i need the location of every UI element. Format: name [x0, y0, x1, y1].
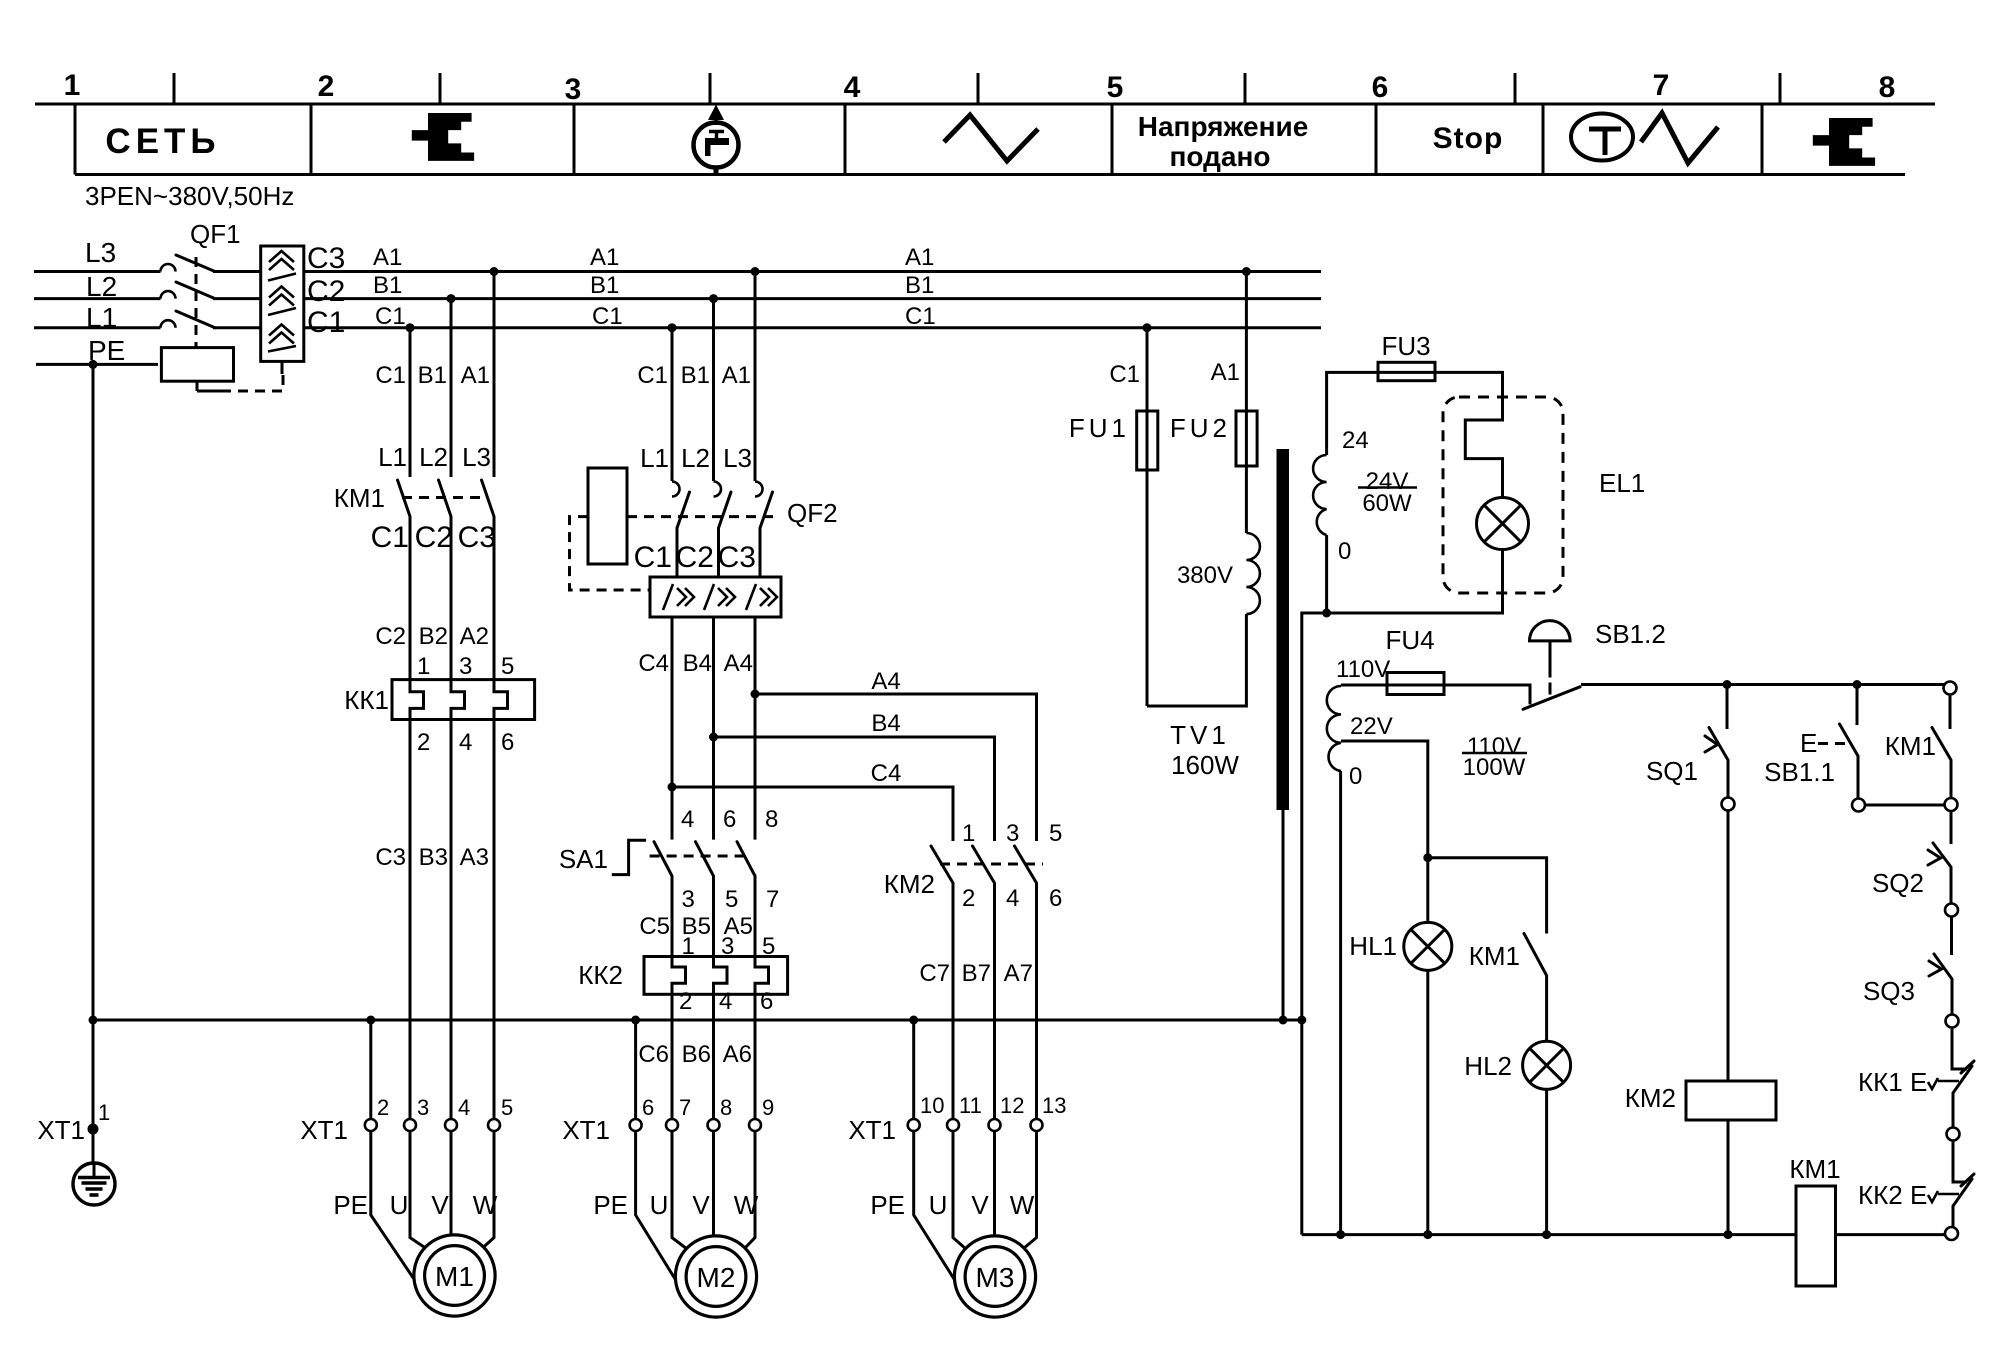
terminal XT1-10 [908, 1119, 920, 1131]
KK1 reset link [1938, 1080, 1959, 1083]
svg-text:4: 4 [681, 806, 694, 833]
wire PE down [92, 364, 95, 1020]
cell3 faucet stem [715, 132, 719, 139]
wire branch2 pole3 low [754, 994, 757, 1119]
wire U to motor1 [410, 1131, 426, 1248]
fuse FU3 [1378, 362, 1435, 380]
svg-text:L2: L2 [681, 443, 710, 473]
wire drop1 A [493, 272, 496, 478]
QF2 blade pole1 [677, 492, 690, 528]
motor M1 outer [414, 1235, 495, 1316]
svg-text:A1: A1 [1211, 359, 1240, 386]
cell7 ellipse [1571, 114, 1633, 161]
QF2 blade pole3 [760, 492, 773, 528]
terminal XT1-7 [666, 1119, 678, 1131]
KM1 main contact blade3 [482, 480, 495, 517]
svg-text:W: W [1010, 1190, 1035, 1220]
transformer TV1 core [1277, 449, 1290, 810]
svg-text:КК1: КК1 [344, 685, 389, 715]
SQ3 roller flag [1929, 961, 1942, 976]
svg-text:4: 4 [459, 729, 472, 756]
QF1 contact arc L3 [161, 264, 176, 272]
wire SB1.1 to terminal [1857, 756, 1860, 798]
svg-text:E: E [1800, 728, 1817, 758]
QF1 block bottom stub [281, 361, 284, 374]
svg-text:FU2: FU2 [1170, 413, 1231, 443]
wire SA1 pole1 top [671, 787, 674, 840]
svg-text:B1: B1 [905, 272, 934, 299]
svg-text:7: 7 [679, 1095, 691, 1120]
thermal relay KK2 box [644, 957, 788, 995]
ruler tick 7-8 [1779, 73, 1782, 104]
lamp HL1 [1404, 922, 1452, 970]
svg-text:L1: L1 [86, 302, 117, 333]
wire bottom rail [1302, 1233, 1796, 1236]
svg-text:A7: A7 [1004, 960, 1033, 987]
svg-text:B3: B3 [419, 844, 448, 871]
KM2 main contact blade2 [973, 846, 995, 883]
svg-text:КМ1: КМ1 [1789, 1154, 1840, 1184]
svg-text:C3: C3 [375, 844, 406, 871]
svg-text:M3: M3 [976, 1262, 1015, 1293]
node A1-drop2 [751, 267, 760, 276]
svg-text:6: 6 [642, 1095, 654, 1120]
svg-text:SQ3: SQ3 [1863, 976, 1915, 1006]
wire SA1 pole2 top [712, 737, 715, 840]
QF1 blade L1 [176, 311, 215, 328]
wire V to motor2 [712, 1131, 715, 1237]
terminal XT1-5 [488, 1119, 500, 1131]
svg-text:C1: C1 [1109, 361, 1140, 388]
wire drop2 A [754, 272, 757, 482]
band separator 3 [844, 104, 847, 175]
svg-text:C6: C6 [638, 1041, 669, 1068]
wire U to motor2 [672, 1131, 687, 1249]
SA1 actuator [612, 840, 646, 874]
lamp HL1 cross [1411, 929, 1445, 963]
QF1 blade L3 [176, 255, 215, 272]
svg-text:L2: L2 [419, 442, 448, 472]
terminal XT1-4 [445, 1119, 457, 1131]
cell7 T stem [1603, 129, 1608, 155]
wire branch3 pole3 low [1035, 883, 1038, 1119]
wire A4 horizontal [755, 694, 1037, 841]
svg-text:4: 4 [1006, 885, 1019, 912]
svg-text:L2: L2 [86, 271, 117, 302]
svg-text:8: 8 [1879, 71, 1896, 104]
KK1 heater pole2 [451, 680, 465, 720]
cell3 faucet handle [709, 130, 724, 134]
wire FU2 through [1245, 411, 1248, 466]
fuse FU2 [1236, 411, 1257, 466]
QF2 trip symbol pole3 [746, 584, 777, 610]
svg-text:A3: A3 [460, 844, 489, 871]
svg-text:L1: L1 [378, 442, 407, 472]
svg-text:3: 3 [417, 1095, 429, 1120]
terminal XT1-2 [365, 1119, 377, 1131]
wire branch2 pole1 low [671, 994, 674, 1119]
svg-text:2: 2 [377, 1095, 389, 1120]
svg-text:B4: B4 [683, 650, 712, 677]
wire W to motor1 [483, 1131, 494, 1248]
svg-text:XT1: XT1 [37, 1115, 85, 1145]
terminal KM1 aux bottom [1945, 798, 1958, 811]
QF1 overcurrent block [261, 246, 304, 361]
wire core ground [1282, 810, 1285, 1020]
svg-text:A1: A1 [373, 244, 402, 271]
svg-text:10: 10 [920, 1093, 944, 1118]
wire PE to motor1 [371, 1131, 415, 1280]
wire pole1 low [409, 720, 412, 1120]
svg-text:6: 6 [723, 806, 736, 833]
QF2 release coil box [588, 468, 627, 564]
svg-text:6: 6 [1372, 71, 1389, 104]
wire to KK1 contact [1952, 1028, 1967, 1070]
wire bottom rail right [1836, 1233, 1946, 1236]
svg-text:С3: С3 [458, 521, 496, 554]
wire L1 to block [213, 326, 261, 329]
svg-text:3PEN~380V,50Hz: 3PEN~380V,50Hz [85, 181, 294, 211]
svg-text:0: 0 [1338, 538, 1351, 565]
svg-text:КМ1: КМ1 [1885, 731, 1936, 761]
node common rail PE [1297, 1016, 1306, 1025]
node B4 junction [709, 733, 718, 742]
wire to KK2 contact [1953, 1141, 1967, 1183]
earth bar3 [86, 1187, 103, 1191]
earth bar4 [90, 1193, 99, 1197]
svg-text:B7: B7 [962, 960, 991, 987]
QF1 release coil box [161, 348, 233, 382]
wire 24V top to FU3 [1327, 372, 1378, 455]
wire KK2 to terminal [1952, 1206, 1955, 1227]
svg-text:3: 3 [565, 73, 582, 106]
svg-text:С1: С1 [634, 541, 672, 574]
wire L2 input [34, 297, 161, 300]
cell3 faucet body [705, 138, 729, 145]
band separator 5 [1375, 104, 1378, 175]
svg-text:B2: B2 [419, 623, 448, 650]
wire W to motor3 [1024, 1131, 1037, 1249]
svg-text:C2: C2 [375, 623, 406, 650]
svg-text:A6: A6 [723, 1041, 752, 1068]
svg-text:C5: C5 [639, 913, 670, 940]
svg-text:С2: С2 [676, 541, 714, 574]
wire KM2 coil to rail [1727, 1122, 1730, 1235]
lamp HL2 cross [1530, 1048, 1564, 1082]
node PE junction [89, 360, 98, 369]
svg-text:КК2: КК2 [578, 960, 623, 990]
wire SA1 pole1 low [671, 876, 674, 957]
QF1 release chevrons pole1 [269, 251, 294, 270]
cell3 bottom stub [714, 166, 719, 173]
wire SA1 pole3 top [754, 694, 757, 840]
terminal XT1-3 [404, 1119, 416, 1131]
svg-text:12: 12 [1000, 1093, 1024, 1118]
band separator 2 [573, 104, 576, 175]
ruler tick 1-2 [173, 73, 176, 104]
svg-text:380V: 380V [1177, 562, 1233, 589]
node rail 0tap [1336, 1230, 1345, 1239]
QF1 release slash pole2 [268, 308, 296, 315]
bus B1 [304, 297, 1321, 300]
wire HL1 top [1426, 858, 1429, 923]
svg-text:5: 5 [725, 886, 738, 913]
terminal top right [1944, 682, 1957, 695]
KM2 contact link dashed [940, 863, 1043, 866]
svg-text:СЕТЬ: СЕТЬ [105, 122, 220, 161]
svg-text:1: 1 [962, 820, 975, 847]
wire PE to motor3 [914, 1131, 955, 1281]
svg-text:С2: С2 [415, 521, 453, 554]
node C1-drop1 [406, 323, 415, 332]
SB1.2 stem dashed [1549, 683, 1552, 695]
node rail KM2 [1724, 1230, 1733, 1239]
wire FU4 through [1387, 684, 1444, 687]
cell7 zigzag [1641, 113, 1718, 163]
QF1 linkage bottom solid [197, 390, 221, 393]
KM1 aux blade [1932, 728, 1951, 761]
wire branch2 pole2 low [712, 994, 715, 1119]
KK1 reset check [1928, 1078, 1938, 1089]
KK2 heater pole2 [714, 957, 728, 995]
band separator 0 [74, 104, 77, 175]
wire A1 to FU2 [1245, 272, 1248, 412]
svg-text:C1: C1 [375, 303, 406, 330]
terminal XT1-11 [947, 1119, 959, 1131]
svg-text:SA1: SA1 [559, 844, 608, 874]
svg-text:U: U [390, 1190, 409, 1220]
wire primary bottom [1147, 614, 1246, 706]
svg-text:QF2: QF2 [787, 498, 838, 528]
KK2 contact tick [1961, 1174, 1974, 1186]
svg-text:2: 2 [679, 988, 692, 1015]
wire FU3 to EL1 [1435, 372, 1503, 497]
svg-text:PE: PE [593, 1190, 628, 1220]
motor M3 outer [954, 1236, 1035, 1317]
earth bar2 [82, 1181, 107, 1185]
wire FU1 to bottom [1146, 470, 1149, 706]
wire L2 to block [213, 297, 261, 300]
svg-text:U: U [650, 1190, 669, 1220]
svg-text:HL1: HL1 [1349, 931, 1397, 961]
wire PE rail [93, 1019, 1302, 1022]
SB1.2 stem [1549, 642, 1552, 678]
svg-text:С1: С1 [307, 306, 345, 339]
node PE drop3 [909, 1016, 918, 1025]
svg-text:КК2 Е: КК2 Е [1858, 1180, 1927, 1210]
svg-text:5: 5 [1107, 71, 1124, 104]
cell4 zigzag [944, 115, 1038, 161]
node PE drop1 [366, 1016, 375, 1025]
svg-text:V: V [971, 1190, 989, 1220]
ruler tick 6-7 [1514, 73, 1517, 104]
svg-text:100W: 100W [1463, 754, 1526, 781]
wire branch3 pole2 low [993, 883, 996, 1119]
svg-text:5: 5 [501, 1095, 513, 1120]
svg-text:C1: C1 [905, 303, 936, 330]
wire to SQ2 [1950, 811, 1953, 844]
QF2 trip link dashed [627, 515, 775, 518]
lamp EL1 [1477, 498, 1529, 550]
wire 0 tap down [1339, 771, 1342, 1235]
earth stem [93, 1163, 96, 1177]
node C1-drop2 [668, 323, 677, 332]
KM1 main contact blade2 [439, 480, 452, 517]
wire C1 to FU1 [1146, 328, 1149, 411]
node rail HL1 [1423, 1230, 1432, 1239]
wire drop2 B [712, 299, 715, 481]
QF1 linkage bottom dashed [221, 374, 283, 391]
svg-text:L3: L3 [85, 237, 116, 268]
wire PE drop2 [634, 1020, 637, 1119]
svg-text:EL1: EL1 [1599, 468, 1645, 498]
KM2 main contact blade3 [1015, 846, 1037, 883]
terminal bottom right [1945, 1227, 1958, 1240]
KM2 main contact blade1 [931, 846, 953, 883]
svg-text:C1: C1 [375, 362, 406, 389]
thermal relay KK1 box [392, 680, 535, 720]
wire U to motor3 [953, 1131, 966, 1249]
TV1 secondary 110V winding [1327, 686, 1341, 771]
svg-text:КМ1: КМ1 [334, 483, 385, 513]
node 0-24V junction [1322, 609, 1331, 618]
svg-text:C1: C1 [592, 303, 623, 330]
node XT1-1 [88, 1124, 99, 1135]
SA1 blade pole1 [654, 842, 672, 876]
band separator 7 [1761, 104, 1764, 175]
node PE rail left [89, 1016, 98, 1025]
terminal SQ2 bottom [1945, 904, 1958, 917]
svg-text:A1: A1 [722, 362, 751, 389]
node rail SB1.1 [1853, 680, 1862, 689]
svg-text:60W: 60W [1362, 490, 1412, 517]
KK2 reset check [1928, 1191, 1938, 1202]
svg-text:С2: С2 [307, 275, 345, 308]
svg-text:B1: B1 [681, 362, 710, 389]
SQ2 roller flag [1928, 850, 1941, 865]
svg-text:PE: PE [333, 1190, 368, 1220]
svg-text:XT1: XT1 [848, 1115, 896, 1145]
svg-text:U: U [929, 1190, 948, 1220]
svg-text:8: 8 [720, 1095, 732, 1120]
node A1-drop1 [490, 267, 499, 276]
terminal XT1-12 [989, 1119, 1001, 1131]
svg-text:11: 11 [959, 1093, 982, 1118]
KM1 main contact blade1 [398, 480, 411, 517]
QF1 release chevrons pole3 [269, 325, 294, 344]
QF1 release chevrons pole2 [269, 287, 294, 306]
ruler tick 2-3 [439, 73, 442, 104]
svg-text:3: 3 [682, 886, 695, 913]
QF1 trip linkage dashed [195, 257, 198, 348]
wire L3 to block [213, 270, 261, 273]
KK2 heater pole3 [755, 957, 769, 995]
node core ground [1279, 1016, 1288, 1025]
wire SB1.1 KM1 link [1865, 804, 1944, 807]
node A1-dropFU2 [1242, 267, 1251, 276]
KK2 contact blade [1953, 1179, 1972, 1206]
svg-text:0: 0 [1349, 763, 1362, 790]
KM1 lamp contact blade [1524, 934, 1547, 976]
wire HL2 branch top [1428, 858, 1547, 934]
svg-text:3: 3 [1006, 820, 1019, 847]
motor M1 inner [425, 1246, 485, 1306]
fraction bar 24V60W [1358, 486, 1417, 489]
QF2 trip symbol pole2 [704, 584, 735, 610]
wire pole1 to block [676, 528, 679, 577]
wire KM1 aux drop [1949, 695, 1952, 730]
node HL1 junction [1423, 853, 1432, 862]
SQ1 blade [1709, 728, 1728, 761]
TV1 secondary 24V winding [1313, 455, 1327, 535]
KK2 reset link [1938, 1193, 1959, 1196]
svg-text:FU4: FU4 [1385, 625, 1434, 655]
svg-text:1: 1 [98, 1100, 110, 1125]
terminal XT1-6 [630, 1119, 642, 1131]
lamp EL1 cross [1484, 505, 1521, 542]
svg-text:7: 7 [766, 886, 779, 913]
terminal XT1-9 [749, 1119, 761, 1131]
SB1.2 blade [1523, 687, 1580, 710]
EL1 enclosure dashed [1443, 397, 1563, 593]
fuse FU1 [1137, 411, 1158, 470]
KK1 heater pole3 [494, 680, 508, 720]
wire drop1 C [409, 328, 412, 477]
wire C4 horizontal [672, 787, 953, 841]
svg-text:B1: B1 [373, 272, 402, 299]
svg-text:110V: 110V [1336, 656, 1390, 683]
svg-text:L1: L1 [640, 443, 669, 473]
cell8 machine icon [1813, 118, 1875, 166]
node C4 junction [668, 783, 677, 792]
svg-text:SB1.2: SB1.2 [1595, 619, 1666, 649]
svg-text:M2: M2 [697, 1262, 736, 1293]
svg-text:5: 5 [501, 653, 514, 680]
wire FU4 to SB1.2 [1444, 685, 1530, 704]
wire EL1 bottom [1327, 550, 1503, 614]
wire pole3 mid [493, 517, 496, 680]
svg-text:160W: 160W [1171, 750, 1239, 780]
QF1 release slash pole1 [268, 274, 296, 281]
wire 22V tap [1341, 741, 1428, 858]
wire L1 input [34, 326, 161, 329]
earth bar1 [78, 1176, 110, 1180]
node B1-drop1 [447, 294, 456, 303]
band bottom border [75, 173, 1905, 176]
terminal KK1 bottom [1947, 1128, 1960, 1141]
svg-text:5: 5 [1049, 820, 1062, 847]
svg-text:С3: С3 [718, 541, 756, 574]
wire HL1 bottom [1426, 970, 1429, 1234]
wire control top rail [1581, 683, 1944, 686]
wire PE to motor2 [636, 1131, 676, 1281]
wire pole2 low [450, 720, 453, 1120]
QF2 contact arc pole1 [672, 482, 680, 497]
wire drop2 C [671, 328, 674, 481]
wire pole3 low [493, 720, 496, 1120]
wire pole1 mid [409, 517, 412, 680]
svg-text:C1: C1 [637, 362, 668, 389]
KK1 contact blade [1953, 1066, 1972, 1093]
wire V to motor1 [450, 1131, 453, 1236]
band separator 6 [1542, 104, 1545, 175]
svg-text:8: 8 [765, 806, 778, 833]
node A4 junction [751, 690, 760, 699]
wire V to motor3 [993, 1131, 996, 1237]
svg-text:4: 4 [458, 1095, 470, 1120]
svg-text:A1: A1 [590, 244, 619, 271]
wire KM1 contact to HL2 [1545, 976, 1548, 1042]
